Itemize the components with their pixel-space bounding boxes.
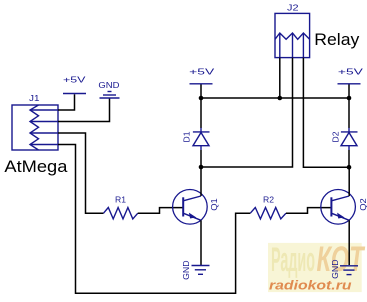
svg-text:+5V: +5V — [63, 74, 86, 84]
ground symbol under Q1 — [192, 266, 210, 275]
svg-text:D2: D2 — [331, 131, 341, 142]
svg-text:+5V: +5V — [189, 66, 215, 76]
svg-text:R2: R2 — [263, 194, 274, 204]
svg-text:КОТ: КОТ — [317, 240, 366, 279]
wire Q1 emitter — [200, 220, 202, 265]
power +5V symbol (right) — [338, 83, 361, 85]
svg-text:GND: GND — [98, 80, 119, 90]
wire R1 to Q1 base — [138, 208, 183, 214]
wire +5V right down to D2 — [348, 85, 350, 129]
power +5V symbol (left) — [63, 93, 86, 95]
diode D1 — [193, 128, 210, 150]
wire +5V rail — [201, 97, 349, 99]
wire J1 pin2 to GND — [58, 98, 110, 121]
wire D2 to node — [348, 150, 350, 167]
svg-text:J2: J2 — [287, 3, 299, 13]
ground symbol under Q2 — [340, 266, 358, 275]
svg-text:AtMega: AtMega — [4, 157, 68, 176]
svg-text:+5V: +5V — [338, 66, 364, 76]
connector J2 — [275, 13, 310, 57]
svg-text:R1: R1 — [115, 194, 126, 204]
wire J2 pin1 down to rail — [279, 58, 281, 98]
svg-text:radiokot.ru: radiokot.ru — [269, 277, 352, 292]
wire J1 pin1 to +5V — [58, 94, 75, 110]
wire J2 pin3 down to D2 node — [303, 58, 349, 168]
transistor Q1 — [173, 190, 208, 225]
transistor Q2 — [321, 190, 356, 225]
svg-text:D1: D1 — [182, 131, 192, 142]
svg-text:J1: J1 — [29, 93, 40, 103]
junction dot D1 node — [199, 165, 204, 170]
wire J1 pin4 to R2 (bottom run) — [58, 145, 250, 294]
connector J1 — [12, 105, 58, 150]
svg-text:Q1: Q1 — [209, 198, 219, 211]
watermark background box — [268, 240, 365, 292]
wire +5V middle down to D1 — [200, 85, 202, 129]
wire Q1 collector — [200, 167, 202, 196]
diode D2 — [341, 128, 358, 150]
svg-text:Q2: Q2 — [358, 198, 367, 211]
svg-text:Relay: Relay — [314, 31, 360, 49]
junction dot rail J2 pin1 — [278, 96, 283, 101]
power +5V symbol (middle) — [190, 83, 213, 85]
junction dot rail left — [199, 96, 204, 101]
wire R2 to Q2 base — [286, 208, 331, 214]
ground symbol (top, inverted) — [100, 92, 120, 99]
junction dot rail right — [347, 96, 352, 101]
resistor R1 — [104, 208, 138, 219]
wire Q2 collector — [348, 167, 350, 196]
junction dot D2 node — [347, 165, 352, 170]
svg-text:GND: GND — [330, 259, 340, 279]
resistor R2 — [250, 208, 286, 219]
svg-text:Радио: Радио — [271, 241, 315, 279]
wire D1 to node — [200, 150, 202, 167]
wire J1 pin3 to R1 — [58, 133, 104, 213]
wire J2 pin2 down to D1 node — [201, 58, 293, 167]
svg-text:GND: GND — [181, 260, 191, 280]
wire Q2 emitter — [348, 220, 350, 265]
